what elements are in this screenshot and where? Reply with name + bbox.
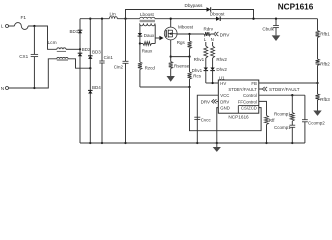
resistor Rcs bbox=[188, 57, 202, 87]
wire rectified rail bbox=[80, 18, 318, 20]
svg-text:DRV: DRV bbox=[220, 33, 231, 38]
wire L terminal to fuse bbox=[9, 25, 15, 27]
svg-text:STDBY/FAULT: STDBY/FAULT bbox=[269, 87, 300, 92]
resistor Rff bbox=[259, 101, 275, 144]
svg-text:Rsense: Rsense bbox=[174, 64, 190, 69]
wire Daux to Raux node bbox=[139, 36, 141, 43]
node B (junction Lcm/BD3/BD4) bbox=[89, 67, 91, 69]
fuse F1 bbox=[15, 15, 29, 29]
pin FFControl bbox=[238, 99, 257, 104]
svg-text:BD3: BD3 bbox=[92, 50, 101, 55]
svg-text:Rfb1: Rfb1 bbox=[320, 31, 330, 36]
node GND rail junction bbox=[216, 142, 218, 144]
resistor Rcomp1 bbox=[274, 95, 294, 121]
node CS junction (Rzcd join) bbox=[188, 86, 190, 88]
resistor Rhv2 bbox=[211, 42, 228, 68]
pin HV bbox=[220, 81, 226, 86]
wire Rzcd to CS node bbox=[140, 86, 190, 88]
wire FB to divider bbox=[259, 82, 318, 84]
svg-text:FB: FB bbox=[251, 81, 257, 86]
svg-text:DRV: DRV bbox=[220, 99, 229, 104]
node Rgs/source junction bbox=[188, 55, 190, 57]
node N (HV sense) bbox=[211, 37, 214, 42]
wire GND pin down bbox=[217, 108, 219, 143]
svg-text:Rdrv: Rdrv bbox=[204, 27, 214, 32]
resistor Rgs bbox=[177, 34, 192, 57]
svg-text:Lin: Lin bbox=[110, 12, 117, 17]
node gate/Rgs junction bbox=[188, 33, 190, 35]
svg-text:HV: HV bbox=[220, 81, 226, 86]
pin DRV bbox=[220, 99, 229, 104]
wire aux right leg bbox=[154, 25, 156, 44]
diode Dhv1 bbox=[192, 68, 209, 73]
pin FB bbox=[251, 81, 257, 86]
svg-text:Control: Control bbox=[243, 93, 257, 98]
svg-text:Raux: Raux bbox=[142, 49, 153, 54]
diode Dboost bbox=[210, 11, 225, 21]
resistor Rfb3 bbox=[316, 94, 331, 102]
op-amp U1 (IC NCP1616 box) bbox=[218, 76, 258, 114]
wire ZCD tap with arrow bbox=[155, 36, 163, 41]
svg-text:BD2: BD2 bbox=[82, 47, 91, 52]
capacitor Ccomp1 bbox=[274, 121, 295, 144]
svg-text:F1: F1 bbox=[21, 15, 27, 21]
pin STDBY/FAULT bbox=[228, 87, 257, 92]
svg-text:L: L bbox=[1, 24, 4, 30]
diode BD4 bbox=[88, 85, 101, 94]
transistor Mboost bbox=[164, 25, 193, 40]
ground Rfb3 bbox=[313, 111, 321, 116]
svg-text:STDBY/FAULT: STDBY/FAULT bbox=[228, 87, 257, 92]
wire aux left to Daux bbox=[139, 25, 141, 34]
resistor Rdrv bbox=[204, 27, 214, 36]
node bypass rejoin bbox=[252, 18, 254, 20]
ground Rsense bbox=[167, 76, 175, 82]
wire CS node to CS/ZCD pin bbox=[190, 87, 262, 131]
svg-text:DRV: DRV bbox=[201, 100, 210, 105]
wire ground rail bbox=[80, 142, 305, 144]
svg-text:Cbulk: Cbulk bbox=[262, 26, 274, 31]
common-mode choke Lcm bbox=[48, 40, 69, 60]
resistor Rzcd bbox=[138, 44, 155, 88]
wire drain to rail bbox=[170, 18, 172, 28]
svg-text:Daux: Daux bbox=[144, 33, 155, 38]
svg-text:Cin1: Cin1 bbox=[104, 55, 114, 60]
node Control/Rcomp1 bbox=[291, 94, 293, 96]
wire source to Rgs bottom bbox=[171, 56, 190, 58]
node A (junction Lcm/BD1/BD2) bbox=[79, 48, 81, 50]
ground Cbulk bbox=[272, 35, 281, 41]
svg-text:NCP1616: NCP1616 bbox=[228, 114, 249, 119]
diode Daux bbox=[138, 33, 155, 38]
pin CS/ZCD bbox=[241, 106, 257, 111]
node leg2 bottom rail bbox=[89, 142, 91, 144]
node leg2 top rail bbox=[89, 18, 91, 20]
svg-text:N: N bbox=[1, 86, 5, 92]
node N (neutral input terminal) bbox=[1, 86, 9, 92]
svg-text:GND: GND bbox=[220, 106, 230, 111]
resistor Rsense bbox=[169, 57, 190, 76]
wire bridge leg 2 bbox=[89, 19, 91, 143]
net arrow DRV (pin side) bbox=[201, 99, 219, 104]
resistor Raux bbox=[140, 42, 155, 54]
svg-text:Dhv2: Dhv2 bbox=[216, 67, 227, 72]
label NCP1616 title bbox=[278, 3, 314, 12]
node junction N/CX1 bbox=[33, 87, 35, 89]
diode Dbypass bbox=[185, 3, 211, 12]
node Cbulk junction bbox=[275, 18, 277, 20]
wire HV stub bbox=[215, 82, 219, 84]
svg-text:Rhv1: Rhv1 bbox=[194, 57, 205, 62]
node L (HV sense) bbox=[204, 37, 207, 42]
node junction L/CX1 bbox=[33, 25, 35, 27]
wire output divider leg bbox=[317, 19, 319, 111]
diode BD1 bbox=[70, 29, 83, 34]
net arrow STDBY/FAULT bbox=[259, 87, 300, 92]
diode BD3 bbox=[88, 50, 101, 59]
svg-text:Rcs: Rcs bbox=[193, 73, 201, 78]
svg-text:Rzcd: Rzcd bbox=[145, 66, 156, 71]
wire Dhv1 to HV bbox=[205, 71, 207, 83]
wire gate line bbox=[177, 33, 204, 35]
svg-text:CS/ZCD: CS/ZCD bbox=[241, 106, 257, 111]
capacitor Cin1 bbox=[99, 18, 113, 145]
svg-text:N: N bbox=[211, 37, 214, 42]
svg-text:BD1: BD1 bbox=[70, 29, 79, 34]
svg-text:Rfb3: Rfb3 bbox=[320, 97, 330, 102]
svg-text:Cin2: Cin2 bbox=[114, 65, 124, 70]
wire bridge leg 1 bbox=[79, 19, 81, 143]
svg-text:Dhv1: Dhv1 bbox=[192, 68, 203, 73]
svg-text:Mboost: Mboost bbox=[178, 25, 194, 30]
wire Lcm bottom winding to bridge node B bbox=[68, 59, 90, 68]
wire Control to compensation bbox=[259, 94, 305, 96]
svg-text:CX1: CX1 bbox=[19, 54, 28, 59]
inductor Lboost (primary winding) bbox=[140, 12, 155, 19]
pin VCC bbox=[220, 93, 229, 98]
winding aux (ZCD winding) bbox=[140, 23, 155, 25]
svg-text:Dbypass: Dbypass bbox=[185, 3, 204, 8]
core Lboost bbox=[140, 20, 155, 22]
capacitor Cbulk bbox=[262, 19, 279, 36]
svg-text:Lboost: Lboost bbox=[140, 12, 155, 17]
capacitor Cin2 bbox=[114, 18, 129, 145]
svg-text:Ccomp2: Ccomp2 bbox=[308, 121, 325, 126]
inductor Lin bbox=[109, 12, 117, 19]
diode Dhv2 bbox=[210, 67, 227, 72]
capacitor CX1 bbox=[19, 26, 38, 88]
wire Dhv2 to HV bbox=[212, 71, 214, 83]
pin GND bbox=[220, 106, 230, 111]
svg-text:Rhv2: Rhv2 bbox=[216, 57, 227, 62]
svg-text:Rff: Rff bbox=[269, 118, 275, 123]
svg-text:Rcomp1: Rcomp1 bbox=[274, 111, 291, 116]
resistor Rhv1 bbox=[194, 42, 208, 68]
resistor Rfb2 bbox=[316, 59, 331, 66]
wire HV pin link bbox=[206, 82, 219, 84]
svg-text:Ccomp1: Ccomp1 bbox=[274, 125, 291, 130]
wire source down bbox=[170, 40, 172, 57]
wire Lcm top winding to bridge node A bbox=[66, 48, 80, 50]
node source junction bbox=[170, 55, 172, 57]
svg-text:Dboost: Dboost bbox=[210, 11, 225, 16]
net arrow DRV (top) bbox=[214, 32, 231, 38]
diode BD2 bbox=[78, 47, 91, 56]
pin Control bbox=[243, 93, 257, 98]
ground main (below rail) bbox=[213, 143, 221, 152]
svg-text:NCP1616: NCP1616 bbox=[278, 3, 314, 12]
label NCP1616 (under box) bbox=[228, 114, 249, 119]
capacitor Cvcc bbox=[194, 95, 218, 144]
svg-text:FFControl: FFControl bbox=[238, 99, 257, 104]
node L (line input terminal) bbox=[1, 24, 9, 30]
node Daux/Raux/Rzcd bbox=[139, 42, 141, 44]
wire bypass branch bbox=[126, 10, 254, 19]
wire fuse to Lcm bbox=[28, 26, 57, 49]
svg-text:VCC: VCC bbox=[220, 93, 229, 98]
svg-text:Rgs: Rgs bbox=[177, 40, 186, 45]
resistor Rfb1 bbox=[316, 31, 331, 38]
svg-text:Rfb2: Rfb2 bbox=[320, 61, 330, 66]
capacitor Ccomp2 bbox=[302, 95, 325, 143]
svg-text:BD4: BD4 bbox=[92, 85, 101, 90]
svg-text:Lcm: Lcm bbox=[48, 40, 57, 46]
wire N terminal to Lcm bbox=[9, 59, 57, 88]
svg-text:Cvcc: Cvcc bbox=[201, 118, 212, 123]
node FB divider junction bbox=[316, 82, 318, 84]
